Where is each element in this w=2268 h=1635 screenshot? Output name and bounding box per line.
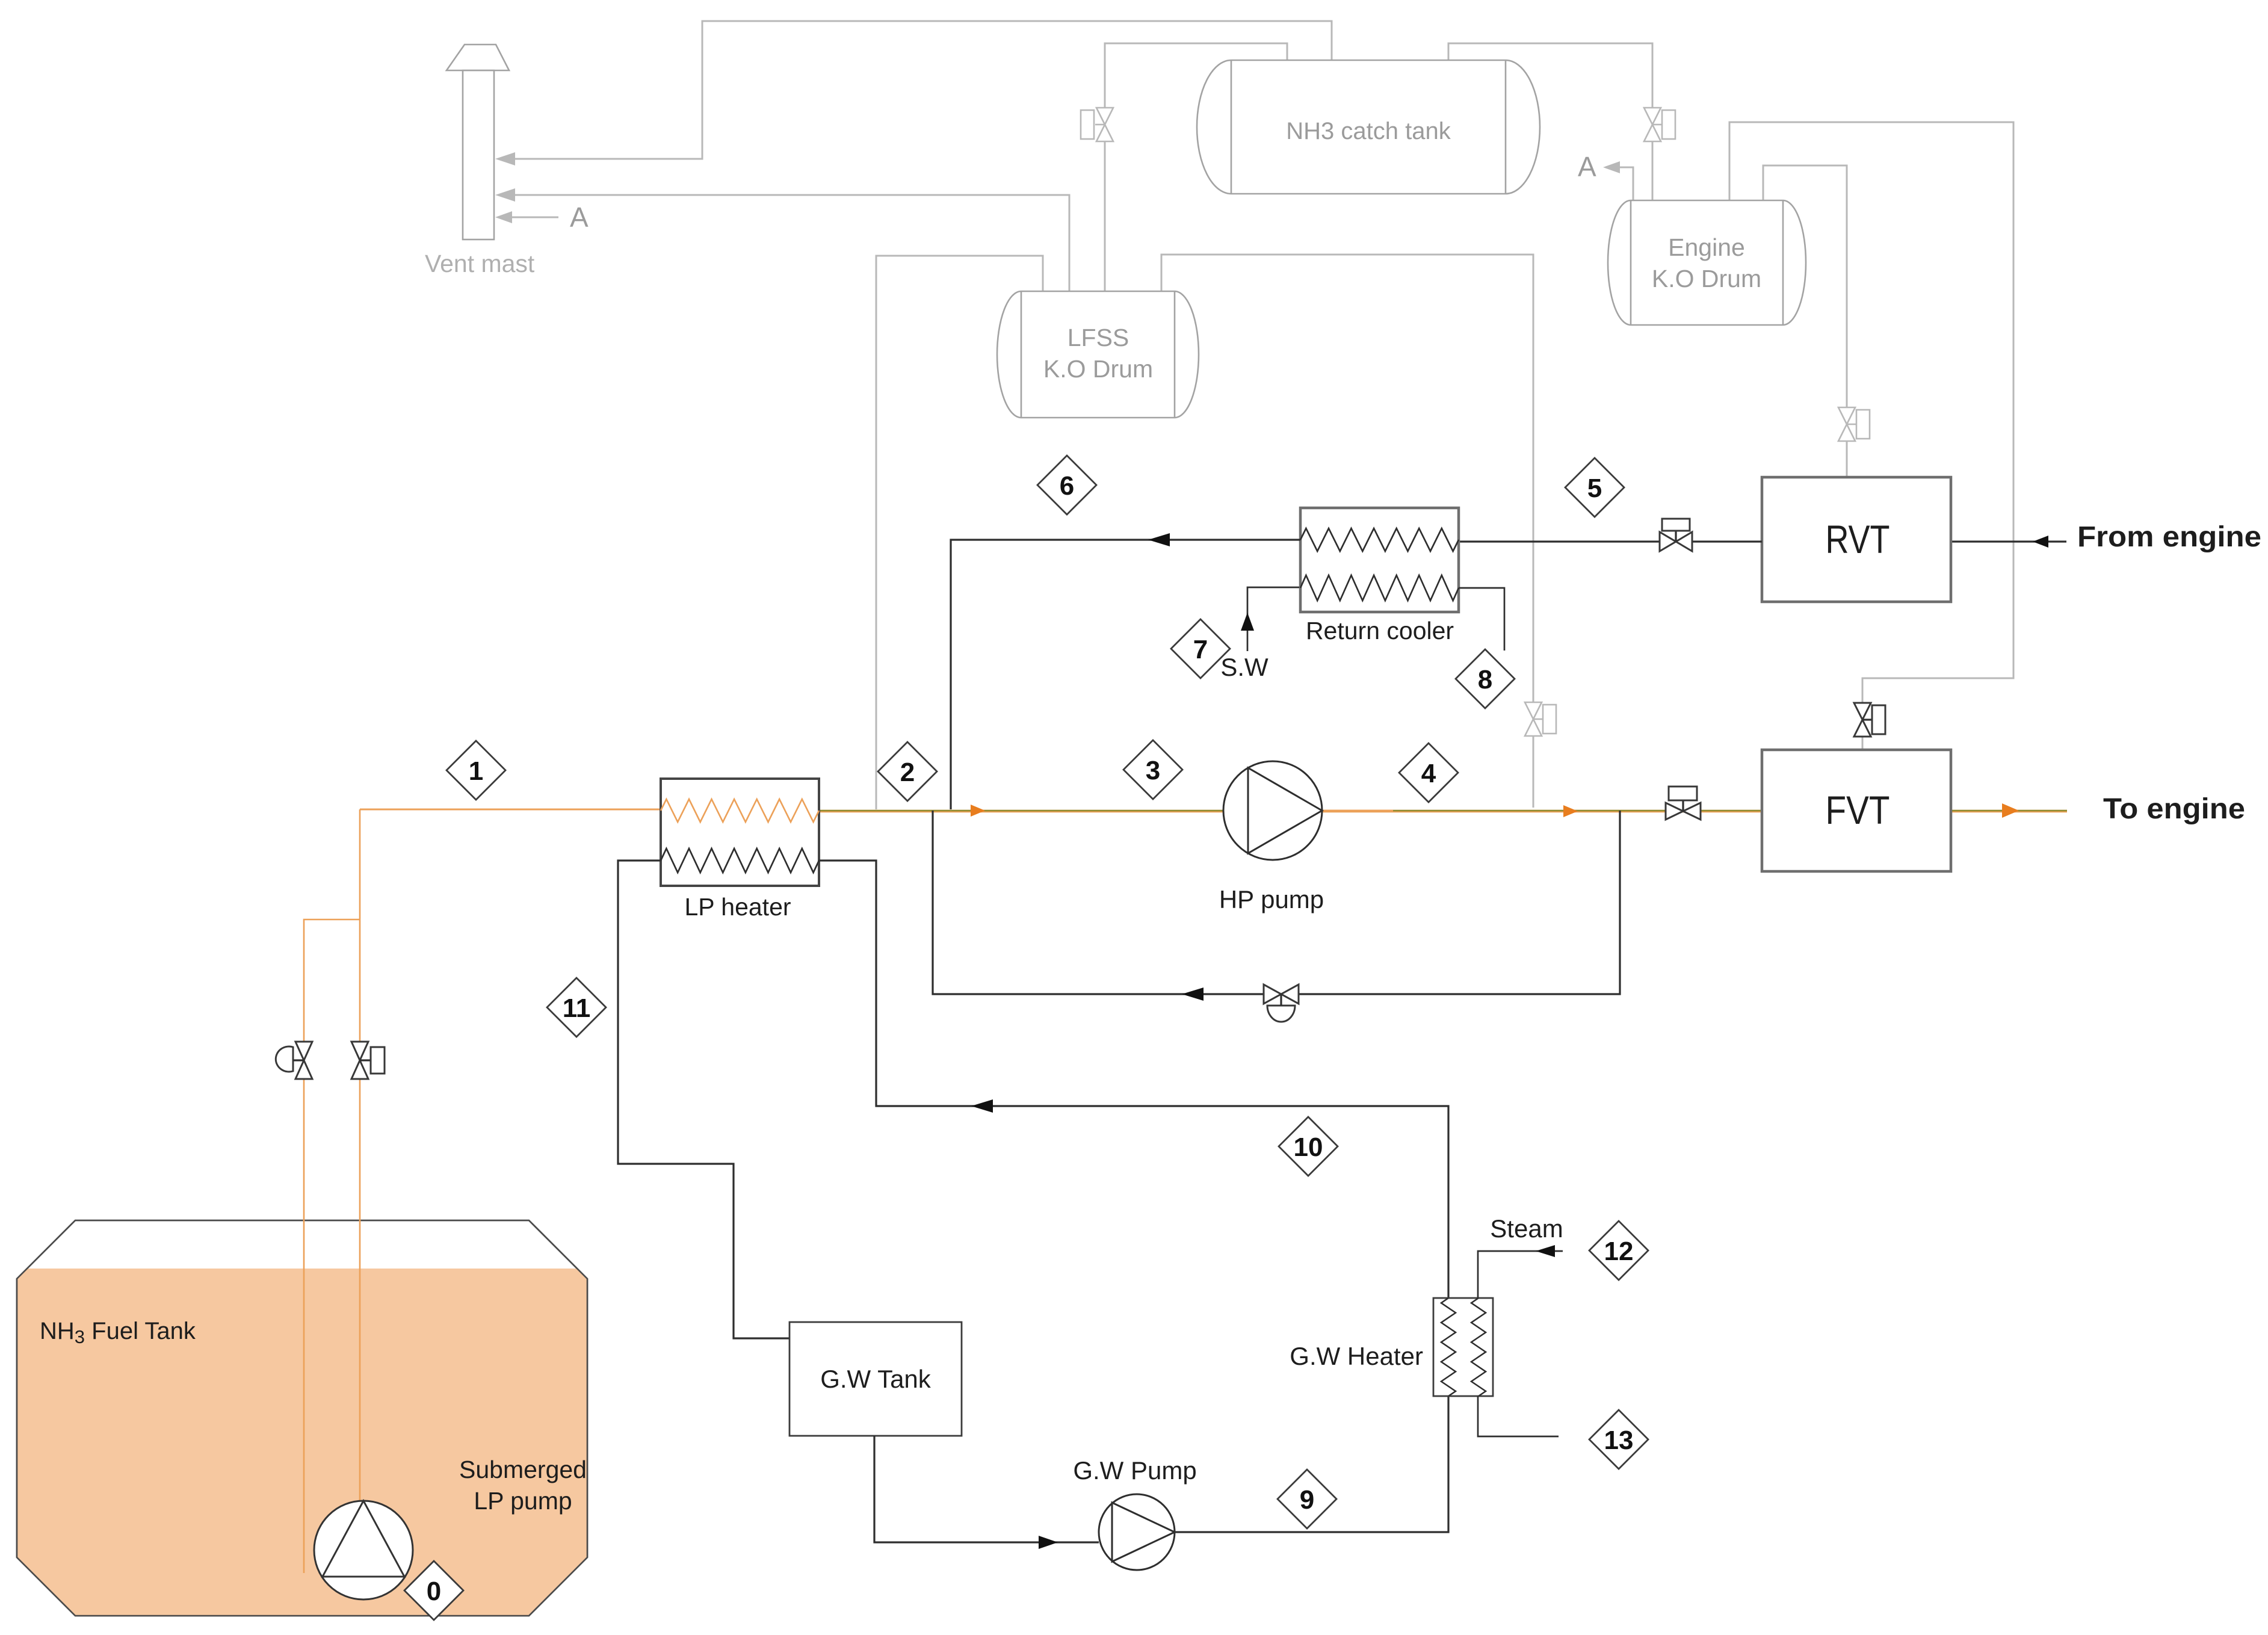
svg-text:A: A [1578,151,1596,182]
svg-text:5: 5 [1587,474,1602,503]
svg-text:4: 4 [1421,759,1436,788]
wire: S.W outlet from return cooler [1459,588,1504,651]
wire: G.W heater to LP heater hot inlet (line 10) [819,861,1448,1298]
svg-text:7: 7 [1193,635,1208,664]
node: stream diamond 0 [404,1561,463,1620]
svg-text:LP heater: LP heater [684,893,791,921]
svg-text:From engine: From engine [2077,521,2261,553]
wire: Engine K.O drum vent to FVT (via valve) [1729,122,2013,750]
vessel: Engine K.O Drum [1608,200,1806,325]
wire: LP heater hot outlet to G.W tank [618,861,789,1338]
svg-text:10: 10 [1294,1133,1323,1162]
valve V7 on FVT fuel inlet [1666,787,1701,820]
node: stream diamond 10 [1279,1117,1338,1176]
node: stream diamond 1 [446,741,505,800]
valve V3 above RVT [1838,407,1870,441]
wire: vent line from LFSS K.O drum to vent mast [498,195,1069,291]
heat exchanger: G.W Heater [1290,1298,1493,1396]
valve V4 above FVT [1854,703,1885,737]
svg-text:12: 12 [1604,1237,1634,1266]
box: RVT [1762,477,1951,602]
node: stream diamond 11 [547,978,606,1037]
valve V5 on fuel relief line [1525,702,1556,736]
wire: fuel line LP heater to FVT (via HP pump, valve) [819,810,1762,812]
svg-text:A: A [570,202,589,233]
check valve V9 on tank return [276,1042,312,1079]
node: stream diamond 12 [1589,1221,1648,1280]
svg-text:1: 1 [469,756,483,786]
wire: G.W tank to G.W pump [874,1436,1099,1542]
wire: fuel line relief to LFSS K.O drum (right path, via valve) [1161,255,1533,808]
node: stream diamond 13 [1589,1410,1648,1469]
svg-text:13: 13 [1604,1426,1634,1455]
svg-text:Return cooler: Return cooler [1306,617,1454,644]
svg-text:8: 8 [1478,665,1492,694]
wire: connector A stub from Engine K.O drum [1608,167,1633,200]
node: stream diamond 2 [878,742,937,801]
svg-text:To engine: To engine [2103,793,2245,825]
wire: steam inlet to G.W heater [1478,1251,1563,1298]
wire: return cooler to HP pump suction [951,540,1300,809]
node: stream diamond 3 [1123,740,1182,799]
node: stream diamond 4 [1399,743,1458,802]
svg-text:K.O Drum: K.O Drum [1043,355,1153,383]
node: stream diamond 6 [1037,456,1096,515]
vessel: NH3 Fuel Tank (octagon) [17,1220,587,1616]
svg-text:S.W: S.W [1220,653,1268,681]
control valve V8 on recirculation line [1264,984,1299,1022]
box: FVT [1762,750,1951,871]
valve V10 on tank suction riser [351,1042,385,1079]
svg-text:Submerged: Submerged [459,1456,587,1483]
wire: tank suction riser [359,809,361,1502]
svg-text:G.W Tank: G.W Tank [820,1365,932,1393]
wire: HP pump recirculation (via control valve) [933,811,1620,994]
svg-text:LFSS: LFSS [1068,324,1129,351]
wire: RVT to return cooler (via valve) [1459,540,1762,542]
svg-text:NH3 catch tank: NH3 catch tank [1286,118,1451,144]
svg-text:Steam: Steam [1490,1214,1563,1243]
valve V2 on engine drum vent line [1644,108,1675,141]
svg-text:NH3 Fuel Tank: NH3 Fuel Tank [40,1318,196,1347]
valve V1 on LFSS vent line [1081,108,1113,141]
node: stream diamond 9 [1278,1470,1336,1528]
pump: HP pump [1219,761,1324,913]
heat exchanger: Return cooler [1300,508,1459,644]
wire: fuel line relief to LFSS K.O drum (left path) [876,256,1043,809]
svg-text:11: 11 [563,994,591,1023]
svg-text:LP pump: LP pump [474,1487,572,1515]
wire: connector A stub into vent mast [498,217,558,218]
wire: fuel suction from tank riser to LP heater [360,809,661,811]
heat exchanger: LP heater [661,779,819,921]
box: G.W Tank [789,1322,962,1436]
pump: Submerged LP pump [314,1501,413,1599]
svg-text:2: 2 [900,758,915,787]
node: stream diamond 8 [1456,649,1515,708]
valve V6 on RVT return line [1660,519,1692,551]
wire: vent line from NH3 catch tank to vent mast [498,21,1332,159]
svg-text:RVT: RVT [1826,517,1890,561]
svg-text:G.W Heater: G.W Heater [1290,1342,1423,1370]
vessel: LFSS K.O Drum [997,291,1199,418]
wire: NH3 catch tank to Engine K.O drum (via valve) [1448,43,1652,200]
vessel: NH3 catch tank [1197,60,1540,194]
wire: LFSS K.O drum to NH3 catch tank (via valve) [1105,43,1287,291]
wire: S.W inlet to return cooler [1247,587,1299,651]
svg-text:HP pump: HP pump [1219,885,1324,913]
svg-text:Vent mast: Vent mast [425,250,535,277]
wire: fuel line segment at HP pump discharge [1322,810,1393,812]
svg-text:6: 6 [1060,471,1074,501]
svg-text:FVT: FVT [1826,788,1890,832]
svg-text:K.O Drum: K.O Drum [1652,265,1761,292]
wire: G.W pump discharge to G.W heater [1175,1396,1448,1532]
node: stream diamond 5 [1565,458,1624,517]
node: stream diamond 7 [1171,619,1230,678]
vent mast [446,45,509,240]
wire: condensate outlet from G.W heater [1478,1396,1559,1436]
svg-text:G.W Pump: G.W Pump [1073,1456,1196,1485]
wire: tank return branch (via valve) [304,919,360,1573]
wire: Engine K.O drum vent to RVT (via valve) [1763,165,1847,477]
pump: G.W Pump [1073,1456,1196,1570]
wire: From engine into RVT [1951,540,2066,542]
svg-text:0: 0 [427,1577,441,1606]
svg-text:3: 3 [1146,756,1160,785]
svg-text:9: 9 [1300,1485,1314,1515]
wire: To engine from FVT [1951,810,2067,812]
svg-text:Engine: Engine [1668,233,1745,261]
